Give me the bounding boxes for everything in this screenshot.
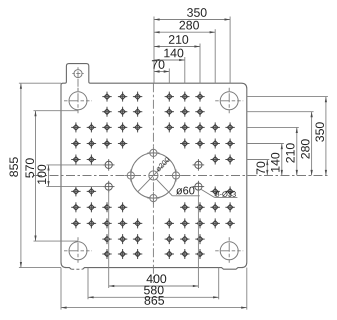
svg-text:140: 140	[269, 152, 283, 173]
svg-text:350: 350	[187, 6, 208, 20]
svg-text:350: 350	[313, 122, 327, 143]
svg-text:210: 210	[168, 33, 189, 47]
svg-text:210: 210	[284, 143, 298, 164]
svg-text:140: 140	[163, 46, 184, 60]
svg-text:280: 280	[179, 18, 200, 32]
svg-text:70: 70	[254, 161, 268, 175]
svg-text:8-Ø33: 8-Ø33	[215, 190, 236, 199]
svg-text:280: 280	[299, 139, 313, 160]
svg-text:ø60: ø60	[176, 185, 195, 197]
svg-text:100: 100	[35, 164, 49, 185]
svg-text:855: 855	[7, 157, 21, 178]
svg-text:865: 865	[144, 294, 165, 308]
